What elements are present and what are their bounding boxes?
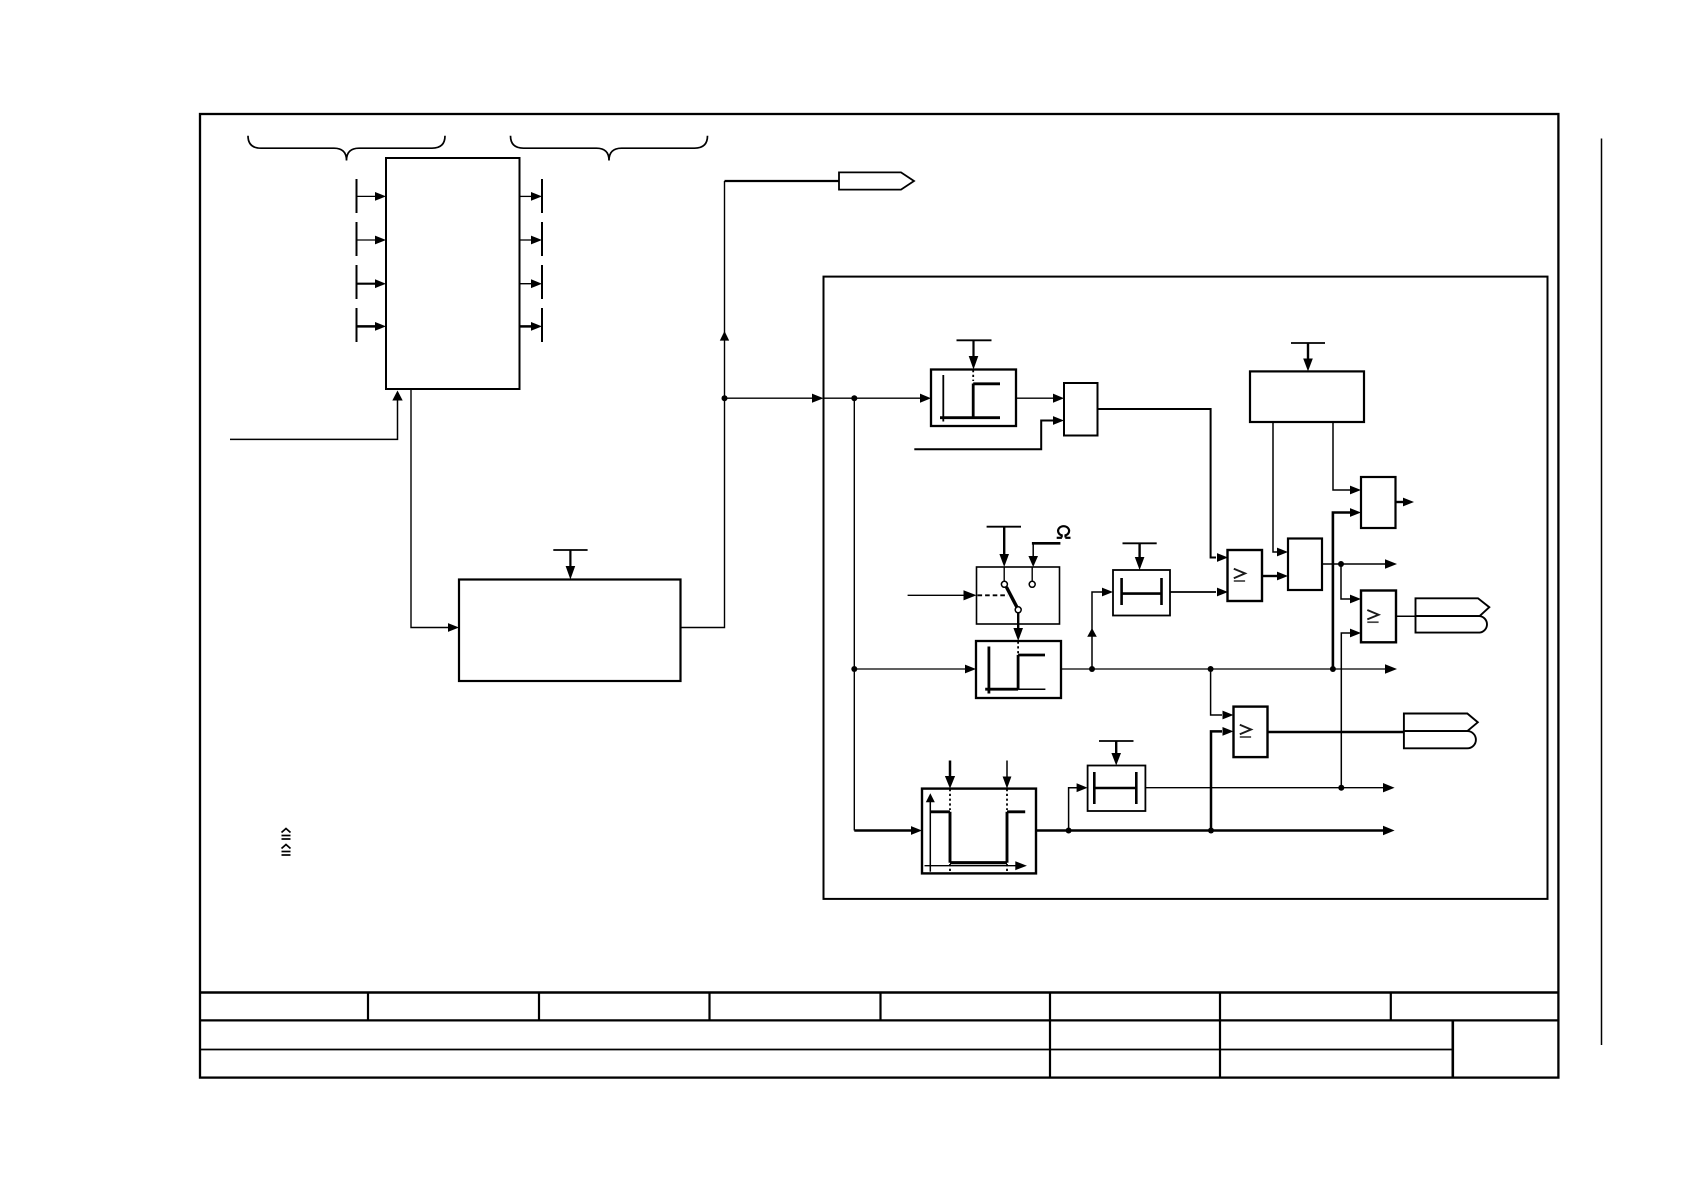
node at (1092,669) bbox=[1089, 666, 1095, 672]
wire to threshold block A bbox=[824, 394, 932, 403]
wire branch into inner box bbox=[725, 394, 824, 403]
block I (top right) bbox=[1250, 371, 1364, 422]
wire J bottom input from node (1341,788) bbox=[1341, 629, 1361, 788]
wire M output across bbox=[1036, 826, 1395, 835]
block L symbol bbox=[1094, 772, 1136, 804]
parameter T into block A bbox=[957, 340, 992, 369]
node at (1210.5,669) bbox=[1208, 666, 1214, 672]
wire from node 1333,669 up into K bbox=[1333, 508, 1361, 669]
output arrow 3 bbox=[520, 279, 543, 288]
corresponds symbol 1 bbox=[282, 829, 291, 840]
omega wire into switch C bbox=[1028, 543, 1060, 567]
wire L output across bbox=[1145, 783, 1394, 792]
K output arrow bbox=[1396, 498, 1415, 507]
input arrow 4 bbox=[357, 322, 387, 331]
block M symbol bbox=[925, 789, 1026, 872]
output arrow 4 bbox=[520, 322, 543, 331]
wire U2 output up to connector bbox=[681, 181, 725, 628]
block H bbox=[1288, 539, 1322, 591]
output flag pointed (upper pair) bbox=[1416, 598, 1490, 616]
wire to hysteresis block D bbox=[854, 665, 976, 674]
output bus dashed line bbox=[541, 179, 543, 344]
wire node(1210,669) down to OR gate G top bbox=[1211, 669, 1234, 719]
main wire D output across bbox=[1061, 664, 1397, 673]
input bus dashed line bbox=[356, 179, 358, 344]
vertical distribution wire x=854 bbox=[853, 398, 855, 830]
block B bbox=[1064, 383, 1098, 436]
title block bbox=[199, 993, 1558, 1078]
brace left bbox=[248, 136, 445, 161]
hysteresis block D bbox=[976, 641, 1061, 698]
wire to connector flag bbox=[725, 180, 840, 182]
parameter T into delay E bbox=[1123, 543, 1157, 570]
block U1 (left large block) bbox=[386, 158, 520, 389]
wire node down into OR gate J bbox=[1341, 564, 1361, 603]
wire E output to OR gate F bbox=[1170, 588, 1228, 597]
switch contacts and lever bbox=[1001, 567, 1035, 613]
omega label bbox=[1057, 526, 1071, 538]
output flag pointed (lower pair) bbox=[1404, 714, 1478, 732]
delay block L bbox=[1088, 766, 1146, 812]
wire into U1 bottom bbox=[230, 391, 403, 440]
wire B output to OR gate F bbox=[1098, 409, 1229, 562]
input arrow 3 bbox=[357, 279, 387, 288]
wire I left output down to H bbox=[1273, 422, 1288, 556]
wire I right output down to K bbox=[1333, 422, 1361, 494]
switch block C bbox=[977, 567, 1060, 624]
node at (1341.3,787.7) bbox=[1338, 785, 1344, 791]
brace right bbox=[511, 136, 708, 161]
switch control wire (dashed inside) bbox=[908, 590, 1008, 600]
M symbol axis arrows bbox=[926, 793, 935, 802]
wire up from node 1092 to delay E bbox=[1087, 588, 1113, 669]
inner function box bbox=[824, 277, 1548, 899]
OR gate J bbox=[1361, 591, 1396, 643]
window comparator block M bbox=[922, 789, 1036, 874]
output flag rounded (lower pair) bbox=[1404, 731, 1476, 748]
parameter T into delay L bbox=[1099, 741, 1134, 766]
output arrow 1 bbox=[520, 192, 543, 201]
wire parameter into B (lower input) bbox=[914, 416, 1064, 449]
parameter T into block I bbox=[1291, 343, 1325, 371]
parameter T into switch C bbox=[987, 527, 1021, 567]
node at (1333,669) bbox=[1330, 666, 1336, 672]
node at (1068.6,830.5) bbox=[1066, 828, 1072, 834]
input arrow 1 bbox=[357, 192, 387, 201]
window comparator parameter arrows bbox=[945, 761, 955, 789]
node at (724.5,398) bbox=[722, 395, 728, 401]
block K (and gate) bbox=[1361, 477, 1396, 528]
wire G bottom input from node (1211,830) bbox=[1211, 727, 1234, 830]
corresponds symbol 2 bbox=[282, 845, 291, 856]
wire F output to H bbox=[1262, 572, 1288, 581]
block U2 (lower left block) bbox=[459, 580, 681, 682]
wire H output bbox=[1322, 559, 1397, 568]
node at (854,398) bbox=[851, 395, 857, 401]
OR gate F bbox=[1228, 550, 1263, 601]
parameter T into U2 bbox=[553, 550, 587, 580]
direction arrow up bbox=[720, 331, 729, 341]
wire J output to flags bbox=[1396, 615, 1416, 617]
block E symbol bbox=[1122, 578, 1162, 605]
delay block E bbox=[1113, 570, 1170, 616]
OR gate G bbox=[1234, 707, 1268, 758]
wire G output to lower flags bbox=[1268, 731, 1404, 733]
node at (1341,564) bbox=[1338, 561, 1344, 567]
output arrow 2 bbox=[520, 236, 543, 245]
drawing frame bbox=[200, 114, 1558, 1078]
node at (854,669) bbox=[851, 666, 857, 672]
wire U1 down to U2 bbox=[411, 389, 459, 632]
node at (1211,830.5) bbox=[1208, 828, 1214, 834]
block A symbol bbox=[940, 370, 1000, 422]
input arrow 2 bbox=[357, 236, 387, 245]
switch output into D bbox=[1013, 613, 1023, 641]
block D symbol bbox=[985, 642, 1045, 694]
wire to window comparator M bbox=[854, 826, 922, 835]
wire A to B bbox=[1016, 394, 1064, 403]
output flag rounded (upper pair) bbox=[1416, 616, 1487, 633]
wire from node (1068.6,830) up into L bbox=[1069, 783, 1088, 830]
page edge line bbox=[1601, 139, 1603, 1046]
connector flag (pointed) bbox=[839, 172, 914, 189]
threshold block A bbox=[931, 370, 1016, 427]
